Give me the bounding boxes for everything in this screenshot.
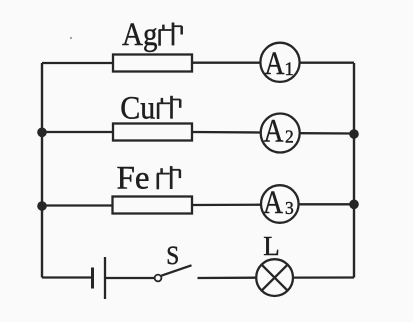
battery negative plate <box>91 268 94 289</box>
node junction left branch2 <box>37 128 47 138</box>
svg-text:L: L <box>263 231 280 261</box>
label Cu片 <box>120 90 180 126</box>
node junction left branch3 <box>37 201 47 211</box>
wire left rail <box>41 63 43 278</box>
wire right rail <box>353 63 355 278</box>
svg-text:3: 3 <box>285 198 294 218</box>
electrode box Fe <box>113 197 193 214</box>
node junction right branch3 <box>349 200 359 210</box>
ammeter A2 <box>261 114 300 153</box>
ammeter A3 <box>261 185 299 223</box>
svg-text:A: A <box>263 185 283 221</box>
wire branch1 mid <box>192 62 261 64</box>
svg-text:A: A <box>265 46 285 82</box>
lamp L <box>256 259 293 296</box>
svg-text:2: 2 <box>285 127 294 147</box>
wire branch2 left <box>42 131 113 133</box>
switch blade <box>161 265 191 275</box>
wire switch to lamp <box>198 277 257 280</box>
electrode box Cu <box>113 124 192 141</box>
wire branch3 right <box>299 203 354 205</box>
wire battery to switch <box>106 277 155 279</box>
label Fe片 <box>117 161 181 197</box>
wire branch1 right <box>300 62 355 64</box>
ammeter A1 <box>260 43 299 83</box>
wire lamp to right rail <box>293 276 354 278</box>
wire branch1 left <box>42 62 113 64</box>
wire branch2 right <box>300 132 355 135</box>
wire bottom left <box>42 276 92 278</box>
svg-text:Ag: Ag <box>122 17 158 53</box>
svg-text:A: A <box>264 114 284 150</box>
wire branch3 left <box>42 204 113 206</box>
wire branch2 mid <box>192 131 261 134</box>
svg-text:Cu: Cu <box>120 90 155 126</box>
battery positive plate <box>104 257 106 299</box>
switch S pivot <box>155 275 162 282</box>
svg-text:Fe: Fe <box>117 161 150 197</box>
label Ag片 <box>122 17 182 53</box>
svg-text:1: 1 <box>284 59 294 80</box>
scan speck <box>70 37 72 39</box>
svg-text:S: S <box>166 240 179 270</box>
wire branch3 mid <box>192 204 261 207</box>
electrode box Ag <box>113 55 192 72</box>
node junction right branch2 <box>349 129 359 139</box>
